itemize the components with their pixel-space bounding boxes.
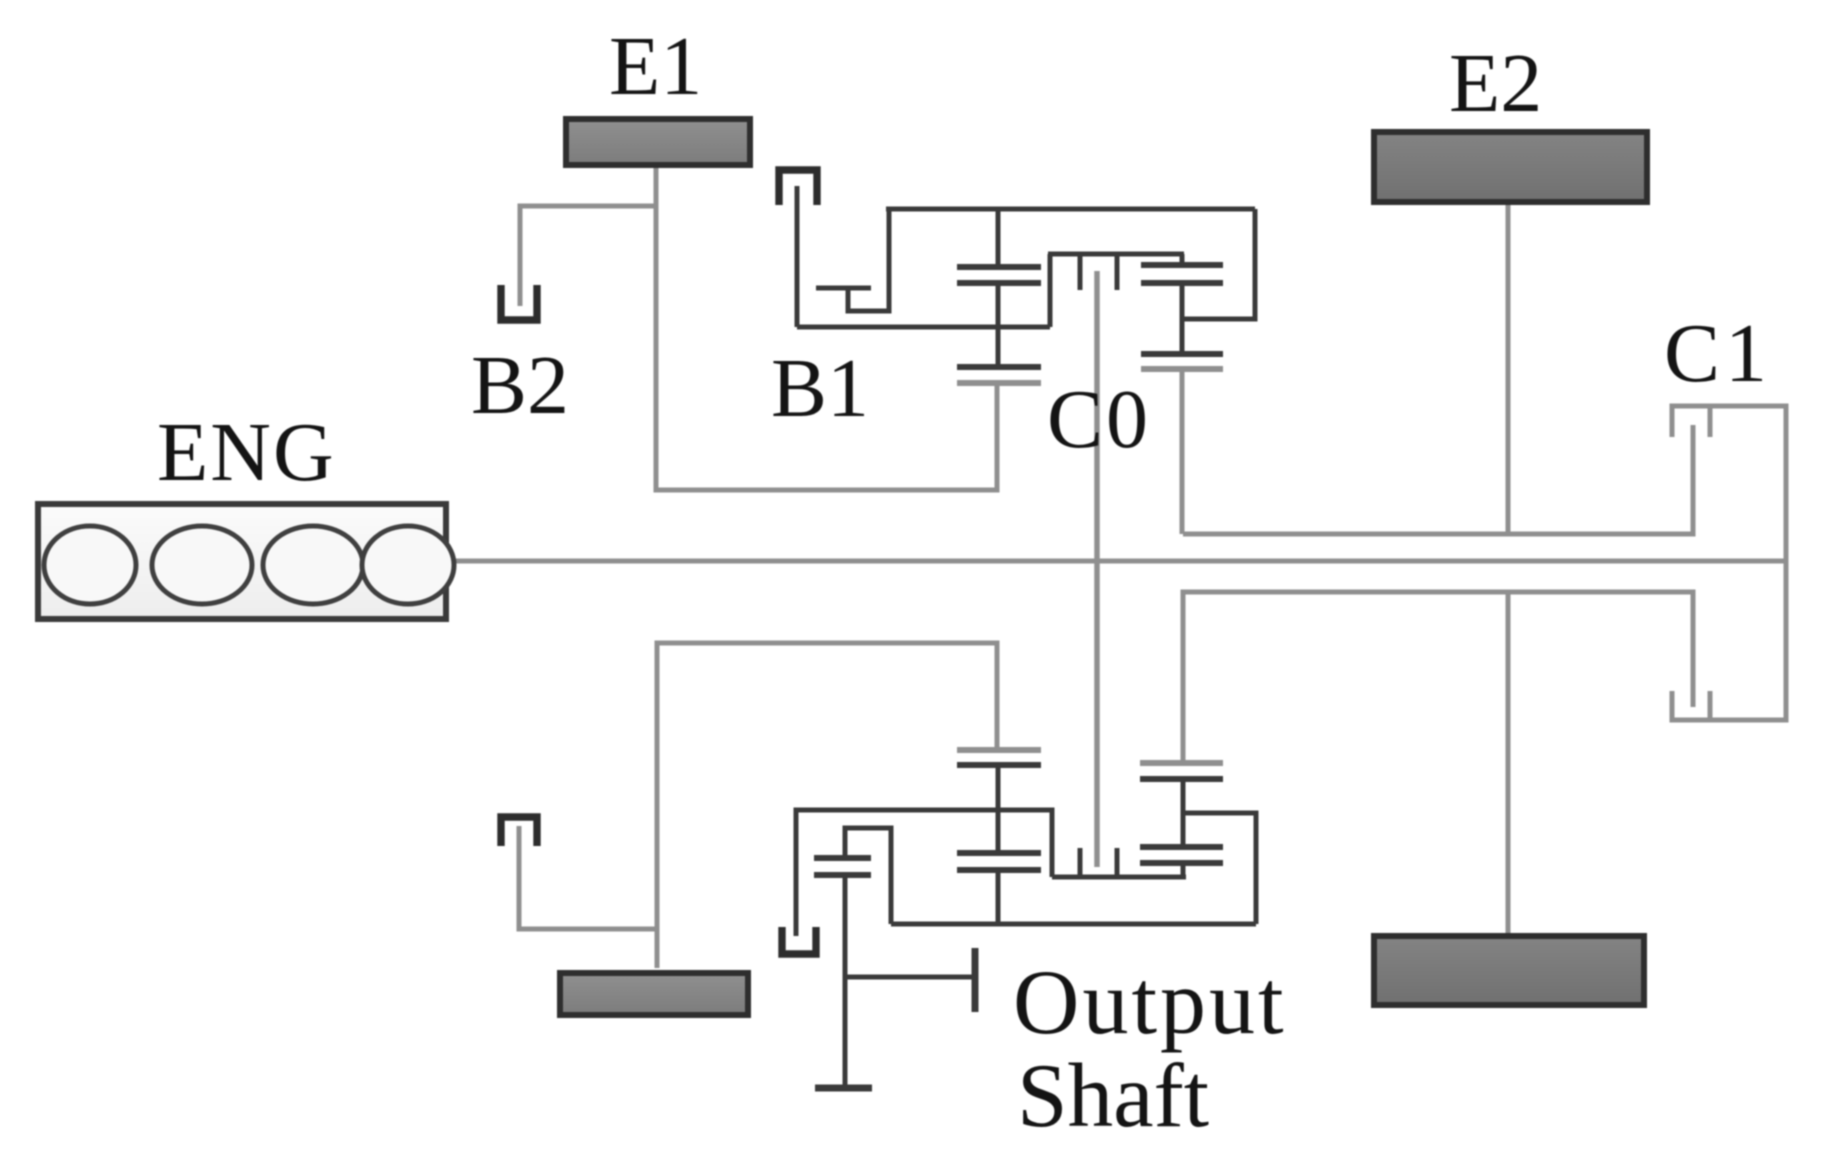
svg-text:Shaft: Shaft (1017, 1045, 1209, 1146)
svg-text:Output: Output (1013, 951, 1287, 1053)
svg-text:C1: C1 (1664, 307, 1772, 400)
svg-text:C0: C0 (1047, 373, 1151, 466)
svg-text:ENG: ENG (157, 406, 336, 499)
svg-text:B1: B1 (771, 342, 869, 435)
svg-text:E2: E2 (1449, 37, 1542, 130)
svg-text:B2: B2 (471, 339, 569, 432)
svg-text:E1: E1 (609, 20, 702, 113)
